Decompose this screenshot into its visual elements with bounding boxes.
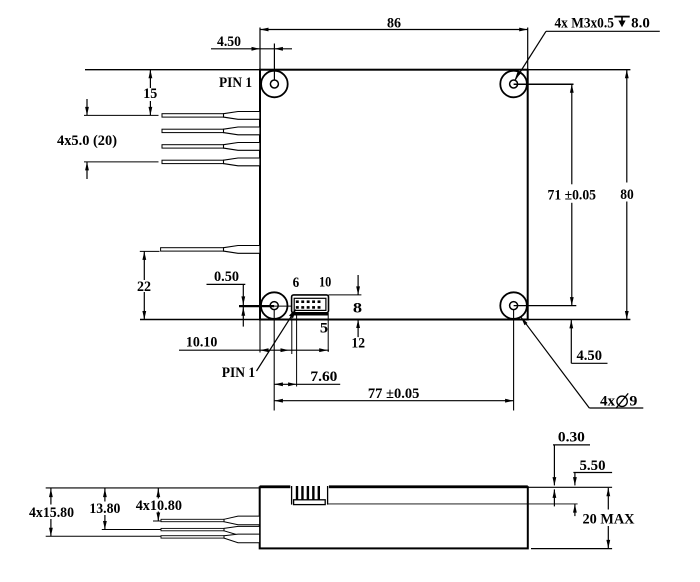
- svg-text:22: 22: [137, 278, 151, 295]
- svg-text:6: 6: [293, 274, 300, 291]
- svg-text:4x10.80: 4x10.80: [136, 497, 183, 514]
- svg-text:77 ±0.05: 77 ±0.05: [368, 385, 420, 402]
- svg-text:7.60: 7.60: [310, 368, 337, 385]
- svg-text:4x M3x0.5: 4x M3x0.5: [555, 14, 615, 31]
- svg-text:4x15.80: 4x15.80: [29, 504, 74, 521]
- svg-text:PIN 1: PIN 1: [219, 74, 252, 91]
- svg-text:15: 15: [143, 85, 157, 102]
- svg-text:PIN 1: PIN 1: [222, 364, 255, 381]
- svg-text:0.50: 0.50: [214, 268, 239, 285]
- svg-text:5: 5: [320, 320, 329, 337]
- svg-text:20 MAX: 20 MAX: [583, 510, 635, 527]
- svg-text:71 ±0.05: 71 ±0.05: [548, 186, 597, 203]
- svg-text:8: 8: [353, 300, 363, 317]
- svg-text:4.50: 4.50: [577, 347, 603, 364]
- svg-text:10: 10: [319, 273, 332, 290]
- svg-text:8.0: 8.0: [631, 14, 650, 31]
- svg-text:80: 80: [620, 186, 634, 203]
- svg-text:13.80: 13.80: [89, 500, 120, 517]
- svg-text:10.10: 10.10: [186, 334, 218, 351]
- svg-text:9: 9: [629, 393, 637, 410]
- svg-text:0.30: 0.30: [558, 428, 585, 445]
- svg-text:86: 86: [387, 14, 401, 31]
- svg-text:4x: 4x: [600, 393, 615, 410]
- svg-text:4x5.0 (20): 4x5.0 (20): [57, 132, 117, 149]
- svg-text:4.50: 4.50: [217, 33, 241, 50]
- svg-text:5.50: 5.50: [580, 457, 606, 474]
- svg-text:12: 12: [351, 335, 365, 352]
